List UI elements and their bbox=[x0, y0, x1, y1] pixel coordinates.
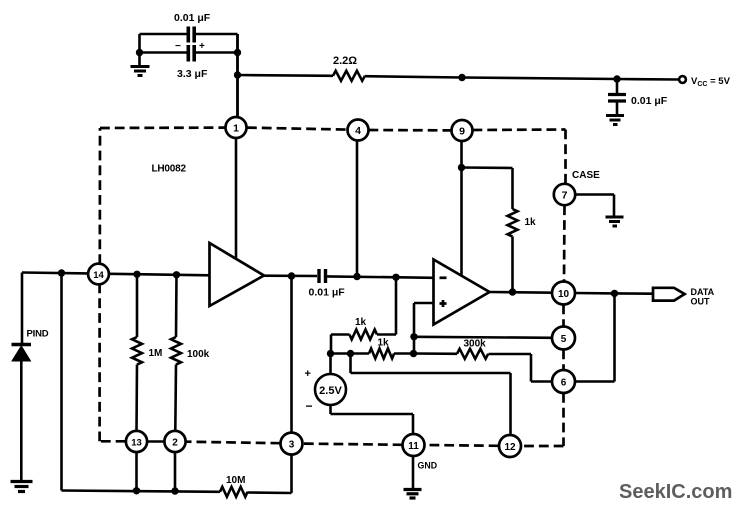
junction dot pin9 branch bbox=[458, 164, 465, 171]
junction dot bottom 2 bbox=[171, 487, 178, 494]
wire pin1 to caps bbox=[236, 34, 239, 117]
wire photodiode branch bbox=[21, 273, 24, 344]
wire pin1 down to opamp bbox=[235, 138, 238, 259]
pin 9 bbox=[452, 120, 473, 141]
svg-text:10M: 10M bbox=[226, 475, 245, 486]
svg-text:1k: 1k bbox=[378, 338, 390, 349]
svg-text:CASE: CASE bbox=[572, 170, 600, 181]
wire pin10 to data out bbox=[575, 292, 653, 295]
svg-text:DATA: DATA bbox=[691, 287, 715, 297]
resistor 1M bbox=[132, 274, 162, 431]
wire A2 output bbox=[490, 291, 553, 294]
capacitor 0.01uF at Vcc bbox=[608, 79, 668, 115]
pin 12 bbox=[499, 435, 521, 457]
ground below Vcc cap bbox=[606, 116, 624, 125]
wire pin13 to bottom bbox=[135, 452, 138, 491]
pin 14 bbox=[88, 264, 109, 285]
capacitor 0.01uF coupling bbox=[309, 269, 346, 299]
pin 7 bbox=[554, 170, 600, 205]
wire pin4 down bbox=[356, 141, 359, 277]
wire to 1k pullup bbox=[462, 168, 513, 210]
wire left vertical to bottom bbox=[62, 273, 221, 492]
svg-text:OUT: OUT bbox=[691, 297, 711, 307]
wire 1k2 to plus node bbox=[394, 352, 414, 355]
svg-text:0.01 μF: 0.01 μF bbox=[631, 95, 668, 107]
svg-text:0.01 μF: 0.01 μF bbox=[174, 12, 211, 24]
wire pin6 feedback bbox=[575, 293, 615, 381]
wire Vcc rail right bbox=[365, 76, 679, 79]
resistor 2.2 ohm bbox=[333, 55, 365, 81]
svg-text:PIND: PIND bbox=[27, 329, 49, 340]
svg-text:5: 5 bbox=[561, 334, 567, 345]
ground below 3.3uF bbox=[131, 53, 150, 76]
pin 2 bbox=[164, 431, 185, 452]
svg-text:14: 14 bbox=[93, 270, 104, 281]
junction dot rail cap bbox=[613, 75, 620, 82]
wire node to 1k2 bbox=[331, 352, 370, 355]
svg-text:2.5V: 2.5V bbox=[319, 385, 342, 397]
wire input A1 bbox=[22, 273, 210, 276]
terminal DATA OUT bbox=[653, 287, 715, 307]
junction dot left vert bbox=[58, 269, 65, 276]
svg-text:+: + bbox=[305, 368, 311, 380]
svg-text:1: 1 bbox=[233, 123, 239, 135]
wire pin11 to ground bbox=[412, 456, 415, 488]
junction dot 1M top bbox=[133, 271, 140, 278]
wire top cap loop bbox=[140, 34, 238, 117]
wire minus node down bbox=[395, 277, 398, 334]
svg-text:13: 13 bbox=[131, 438, 142, 449]
svg-text:2.2Ω: 2.2Ω bbox=[333, 55, 357, 67]
IC LH0082 dashed outline bbox=[100, 128, 566, 446]
svg-text:7: 7 bbox=[562, 190, 568, 202]
junction dot vcc branch bbox=[234, 71, 241, 78]
op-amp A2 bbox=[434, 260, 490, 325]
junction dot out A1 bbox=[288, 272, 295, 279]
pin 1 bbox=[226, 117, 247, 138]
junction dot cap left bbox=[136, 49, 143, 56]
short solid link pin13-pin2 bbox=[148, 440, 165, 443]
svg-text:4: 4 bbox=[355, 125, 361, 137]
wire Vcc rail left bbox=[238, 74, 334, 77]
wire A1 output bbox=[264, 274, 317, 277]
pin 5 bbox=[552, 327, 575, 350]
resistor 10M bbox=[220, 475, 248, 497]
wire pin9 down bbox=[460, 141, 463, 276]
capacitor 3.3uF electrolytic bbox=[175, 41, 208, 80]
svg-text:6: 6 bbox=[561, 378, 567, 389]
node 2.5V plus dot bbox=[327, 350, 334, 357]
wire cap to A2 minus bbox=[327, 276, 434, 277]
junction dot minus node bbox=[392, 274, 399, 281]
svg-text:0.01 μF: 0.01 μF bbox=[309, 287, 346, 299]
capacitor 0.01uF top-left bbox=[174, 12, 211, 43]
pin 4 bbox=[348, 120, 369, 141]
wire pin7 to ground bbox=[575, 195, 614, 217]
resistor 1k pullup bbox=[508, 209, 537, 237]
svg-text:100k: 100k bbox=[187, 349, 210, 360]
svg-text:12: 12 bbox=[504, 442, 516, 453]
svg-text:1k: 1k bbox=[355, 317, 367, 328]
junction dot pin5 wire bbox=[410, 333, 417, 340]
svg-text:2: 2 bbox=[172, 438, 178, 449]
terminal Vcc bbox=[679, 76, 730, 88]
junction dot pin4 line bbox=[353, 273, 360, 280]
resistor 1k lower bbox=[369, 338, 394, 359]
svg-text:−: − bbox=[175, 41, 181, 52]
junction dot rail pin9 bbox=[458, 74, 465, 81]
svg-text:+: + bbox=[199, 41, 205, 52]
wire 10M to pin3 bbox=[248, 455, 292, 493]
svg-text:3.3 μF: 3.3 μF bbox=[177, 68, 208, 80]
pin 3 bbox=[281, 433, 303, 455]
resistor 300k bbox=[414, 339, 489, 359]
svg-text:300k: 300k bbox=[464, 339, 487, 350]
junction dot 100k top bbox=[173, 271, 180, 278]
wire 300k to pin6 bbox=[489, 354, 553, 382]
svg-text:1k: 1k bbox=[525, 217, 537, 228]
pin 11 bbox=[403, 434, 438, 471]
resistor 1k feedback upper bbox=[331, 317, 396, 354]
wire tap to pin12 bbox=[351, 354, 511, 436]
resistor 100k bbox=[171, 275, 210, 431]
op-amp A1 bbox=[210, 243, 265, 306]
wire pin2 to bottom bbox=[174, 452, 177, 491]
svg-text:−: − bbox=[306, 399, 313, 413]
junction dot tap pin12 bbox=[347, 350, 354, 357]
junction dot feedback bbox=[611, 290, 618, 297]
wire pin3 up bbox=[290, 276, 293, 433]
junction dot cap right bbox=[234, 49, 241, 56]
junction dot 1k output bbox=[509, 288, 516, 295]
svg-text:GND: GND bbox=[418, 461, 438, 471]
svg-text:3: 3 bbox=[289, 440, 295, 451]
wire 2.5V minus to pin11 bbox=[331, 405, 414, 434]
svg-text:SeekIC.com: SeekIC.com bbox=[619, 481, 732, 503]
ground at pin11 bbox=[404, 490, 422, 499]
pin 10 bbox=[552, 282, 575, 305]
ground below photodiode bbox=[11, 482, 33, 492]
wire 1k to output bbox=[511, 237, 514, 293]
svg-text:1M: 1M bbox=[149, 348, 163, 359]
wire to pin 5 bbox=[414, 337, 552, 338]
junction dot plus node bottom bbox=[410, 350, 417, 357]
pin 6 bbox=[552, 370, 575, 393]
svg-text:LH0082: LH0082 bbox=[152, 164, 187, 175]
junction dot bottom 13 bbox=[133, 487, 140, 494]
svg-text:10: 10 bbox=[558, 289, 570, 300]
ground at pin7 bbox=[606, 217, 624, 226]
wire plus input bbox=[414, 303, 434, 354]
battery 2.5V bbox=[305, 354, 347, 414]
pin 13 bbox=[126, 431, 147, 452]
svg-text:11: 11 bbox=[408, 441, 419, 452]
svg-text:9: 9 bbox=[459, 126, 465, 138]
svg-text:VCC = 5V: VCC = 5V bbox=[691, 76, 731, 88]
photodiode PIND bbox=[12, 329, 49, 481]
